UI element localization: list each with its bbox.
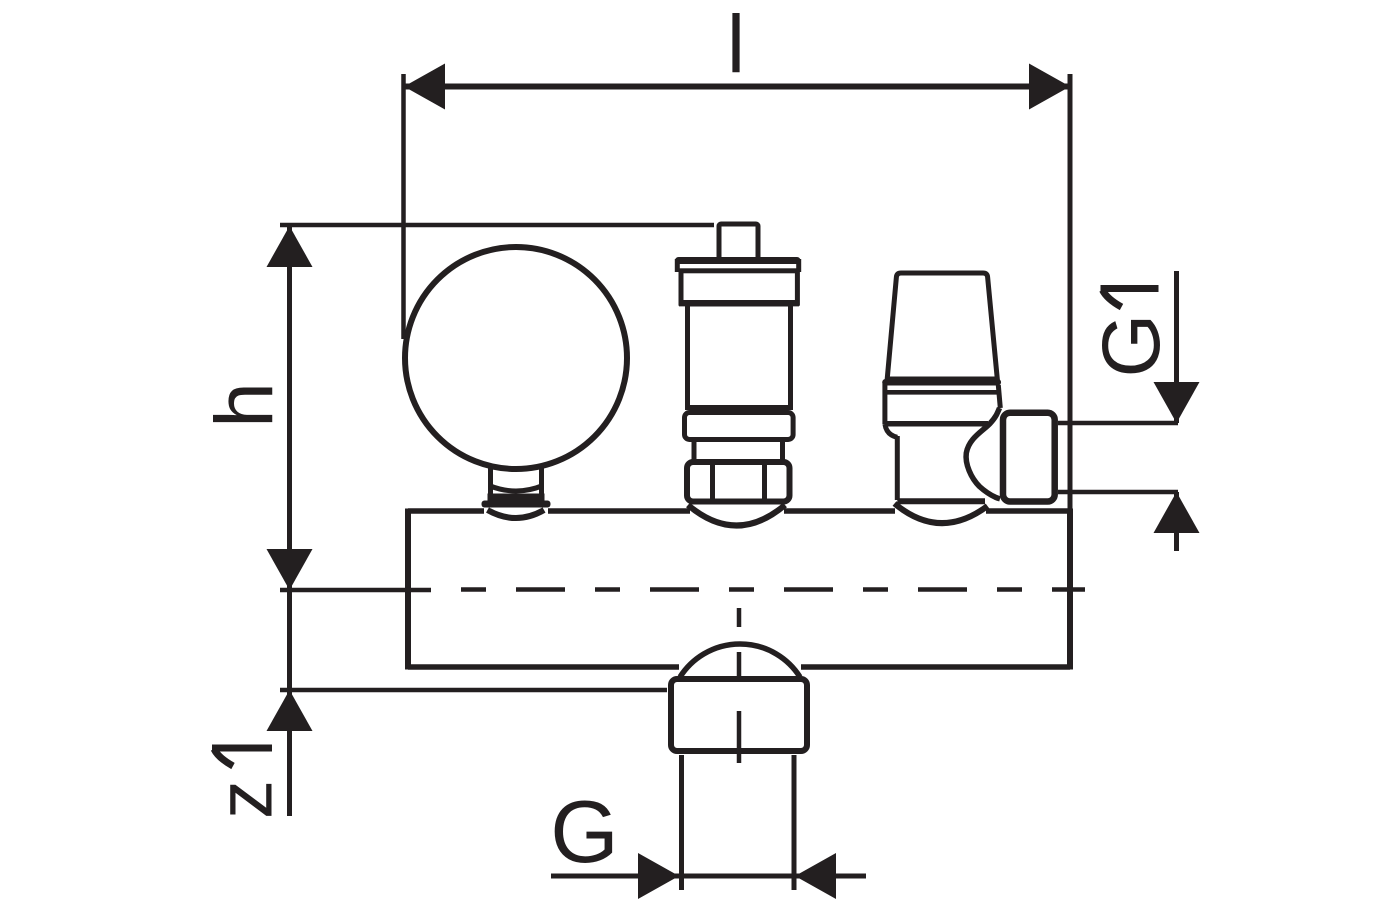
dimension G: left dimension line [551,874,679,879]
safety valve mid band left side [882,382,887,424]
outlet vertical centerline lower dash [737,711,742,763]
svg-text:G: G [1086,314,1177,378]
safety valve side outlet [1003,413,1055,502]
manifold right edge [1067,509,1073,670]
air vent valve lid sides [677,259,798,272]
dimension G: middle segment [679,874,795,879]
dimension G: right arrowhead [795,853,836,899]
safety valve cap trapezoid [887,273,997,379]
air vent valve upper block thick bottom band [679,300,799,306]
gauge bottom arc [488,510,545,518]
svg-text:z: z [201,780,289,819]
safety valve outlet fillet curve [966,408,1000,499]
manifold dashed centerline [461,587,1085,592]
bottom outlet flange [671,679,807,751]
dimension l: right extension line [1068,74,1073,511]
air vent valve upper block [681,271,797,303]
bottom outlet pipe lines [682,755,795,890]
safety valve bottom arc [895,504,988,524]
dimension l: left extension line [401,74,406,339]
dimension z1: extension line [280,688,667,693]
bottom outlet dome arc [680,644,800,677]
manifold body top edge [408,508,1070,514]
dimension h: dimension line [287,226,292,590]
air vent valve main cylinder [688,304,791,408]
safety valve lower block left edge [895,436,900,500]
svg-text:G: G [550,782,618,881]
gauge neck sides [491,467,542,497]
dimension l: dimension line [404,84,1070,90]
safety valve cap bottom band [886,379,998,386]
dimension l: left arrowhead [404,64,445,110]
dimension G1: lower arrowhead [1154,492,1200,533]
dimension G: right dimension line [795,874,866,879]
dimension h: bottom arrowhead [267,549,313,590]
dimension z1: label digit 1 flag [214,749,233,766]
air vent valve bottom arc [688,505,785,526]
dimension h: bottom extension line [280,588,431,593]
dimension h: top arrowhead [267,226,313,267]
dimension G1: upper dimension line [1174,271,1179,423]
outlet vertical centerline upper dashes [737,608,742,676]
dimension z1: arrowhead [267,690,313,731]
dimension G1: upper arrowhead [1154,382,1200,423]
dimension G1: label digit 1 flag [1103,290,1122,307]
manifold left edge [405,509,411,670]
gauge collar [482,501,551,508]
air vent valve lid top band [679,257,798,264]
safety valve thin line under cap [885,390,1000,395]
manifold body bottom edge [408,664,1070,670]
dimension z1: label digit 1 stem [212,745,272,752]
safety valve mid band bottom line [887,421,988,427]
air vent valve hex nut facet lines [713,464,765,499]
air vent valve knob [719,224,758,260]
air vent valve lower flange [685,413,794,440]
dimension z1: dimension line [287,590,292,816]
dimension h: top extension line [280,223,714,228]
svg-text:h: h [199,382,290,428]
dimension G1: lower dimension line [1174,492,1179,551]
dimension l: right arrowhead [1029,64,1070,110]
air vent valve ring section sides [694,441,783,460]
safety valve left neck step [885,424,897,437]
air vent valve hex nut [687,462,790,502]
gauge neck inner arc [489,486,543,492]
pressure gauge dial circle [405,247,627,469]
safety valve lower block bottom edge [897,498,985,504]
dimension G1: label digit 1 stem [1101,285,1159,292]
dimension G: left arrowhead [638,853,679,899]
safety valve mid band right side [998,385,1000,408]
svg-text:l: l [727,0,745,90]
dimension G1: bottom extension line [1058,490,1178,495]
gauge base band [488,494,545,502]
dimension G1: top extension line [1058,421,1178,426]
